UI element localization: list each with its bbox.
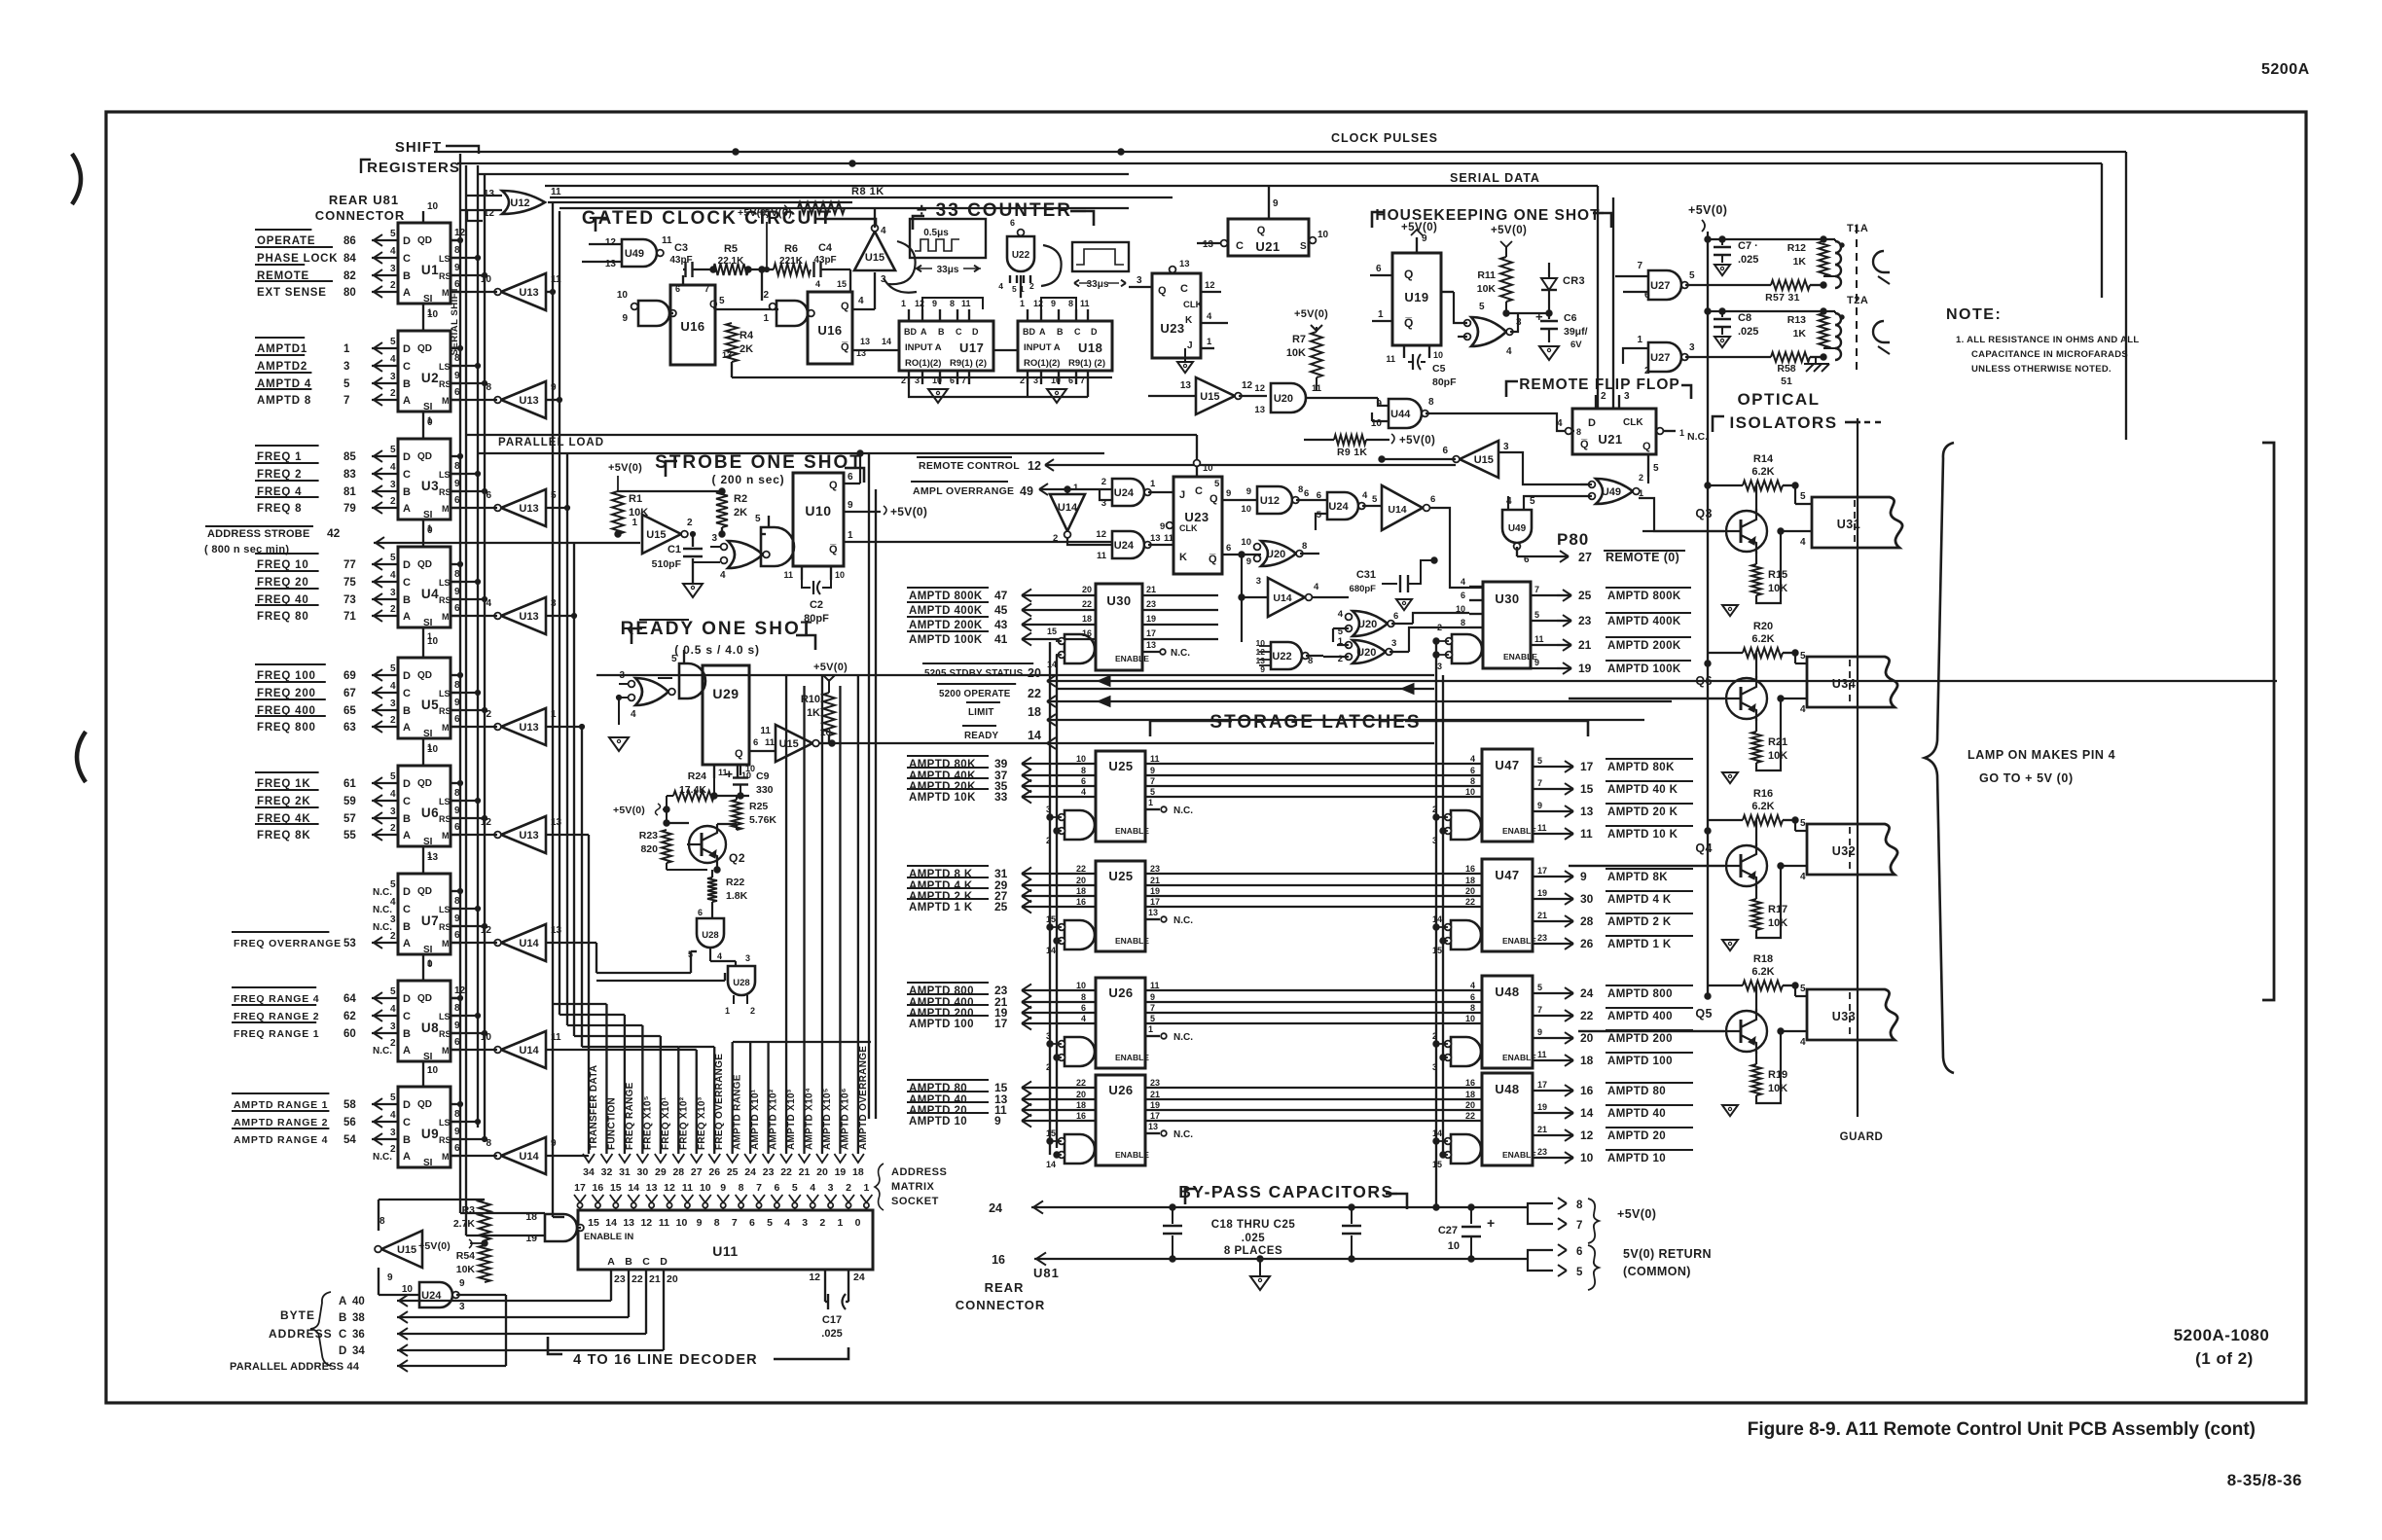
drawing number 5200A-1080: [2174, 1326, 2270, 1344]
svg-text:22: 22: [1082, 599, 1092, 609]
svg-text:U48: U48: [1495, 985, 1519, 999]
svg-text:84: 84: [343, 253, 356, 265]
svg-text:17: 17: [1150, 1111, 1160, 1121]
svg-text:U15: U15: [779, 738, 799, 750]
enable gate left group 4: [1046, 1128, 1096, 1169]
svg-text:1. ALL RESISTANCE IN OHMS AND: 1. ALL RESISTANCE IN OHMS AND ALL: [1956, 335, 2139, 345]
svg-text:ENABLE: ENABLE: [1115, 1053, 1149, 1062]
svg-text:AMPTD 10 K: AMPTD 10 K: [1607, 829, 1678, 841]
and gate (ready): [638, 650, 705, 698]
svg-text:56: 56: [343, 1117, 356, 1128]
svg-text:M: M: [442, 831, 450, 841]
latch U26 (group 4): [1096, 1075, 1149, 1165]
resistor R21: [1751, 698, 1787, 770]
svg-text:8: 8: [1428, 397, 1434, 408]
input rows of U6: [255, 771, 398, 842]
svg-text:LS: LS: [439, 362, 451, 372]
svg-text:86: 86: [343, 235, 356, 247]
svg-text:Q̅: Q̅: [829, 544, 838, 555]
capacitor C1: [652, 531, 730, 578]
svg-text:9: 9: [848, 500, 853, 511]
svg-text:43pF: 43pF: [669, 255, 692, 266]
svg-text:D: D: [403, 670, 411, 682]
svg-text:73: 73: [343, 594, 356, 606]
svg-text:21: 21: [1146, 585, 1156, 594]
svg-text:U20: U20: [1356, 647, 1376, 659]
wire serial chain into U5: [423, 627, 432, 646]
svg-text:4: 4: [390, 681, 396, 692]
housekeeping one shot U19: [1370, 233, 1443, 364]
svg-text:22.1K: 22.1K: [718, 256, 744, 267]
svg-text:U47: U47: [1495, 868, 1519, 882]
svg-text:BYTE: BYTE: [280, 1308, 315, 1322]
svg-text:9: 9: [1537, 801, 1542, 810]
note body line 2: [1971, 349, 2128, 360]
svg-text:9: 9: [622, 313, 628, 324]
svg-text:C: C: [403, 577, 411, 589]
svg-text:REMOTE CONTROL: REMOTE CONTROL: [919, 460, 1020, 472]
svg-text:Q: Q: [735, 748, 743, 760]
svg-text:.025: .025: [821, 1328, 842, 1340]
wire latch top rails: [596, 675, 1434, 686]
svg-text:CR3: CR3: [1563, 275, 1585, 287]
label PARALLEL LOAD: [498, 437, 604, 448]
svg-text:REAR U81: REAR U81: [329, 193, 399, 207]
svg-text:B: B: [403, 486, 411, 498]
svg-text:6: 6: [1081, 1003, 1086, 1013]
svg-text:B: B: [625, 1256, 632, 1268]
wire latch bus group 2: [1145, 864, 1482, 907]
svg-text:M: M: [442, 288, 450, 298]
svg-text:AMPTD 800K: AMPTD 800K: [909, 591, 983, 602]
svg-text:U14: U14: [1273, 592, 1291, 604]
svg-text:67: 67: [343, 688, 356, 699]
svg-text:8 PLACES: 8 PLACES: [1224, 1245, 1282, 1257]
enable gate left group 1: [1046, 805, 1096, 845]
svg-text:N.C.: N.C.: [1173, 915, 1193, 926]
svg-text:20: 20: [1465, 1100, 1475, 1110]
svg-text:SI: SI: [423, 1052, 433, 1062]
ground below C8: [1714, 337, 1730, 347]
svg-text:CLOCK PULSES: CLOCK PULSES: [1331, 131, 1438, 145]
svg-text:PARALLEL ADDRESS 44: PARALLEL ADDRESS 44: [230, 1361, 360, 1373]
svg-text:17: 17: [1537, 866, 1547, 876]
input rows of U9: [232, 1092, 398, 1163]
svg-text:12: 12: [1254, 383, 1265, 394]
wire counter top interconnect: [922, 275, 1076, 309]
ground Q5 emitter: [1720, 1099, 1756, 1116]
svg-text:18: 18: [852, 1166, 864, 1178]
svg-text:1: 1: [1378, 309, 1384, 320]
svg-text:+5V(0): +5V(0): [1688, 203, 1727, 217]
svg-text:21: 21: [1537, 1125, 1547, 1134]
svg-text:13: 13: [623, 1217, 634, 1229]
label +5V(0) strobe: [608, 462, 642, 537]
svg-text:R20: R20: [1753, 621, 1773, 632]
svg-text:12: 12: [809, 1271, 820, 1283]
decoder U11: [578, 1210, 873, 1270]
svg-text:16: 16: [593, 1182, 604, 1194]
svg-text:9: 9: [1246, 486, 1251, 497]
svg-text:18: 18: [1465, 876, 1475, 885]
svg-text:C6: C6: [1564, 312, 1577, 324]
nand gate U24 (address): [379, 1268, 465, 1312]
svg-text:3: 3: [828, 1182, 834, 1194]
svg-text:( 800 n sec min): ( 800 n sec min): [204, 544, 289, 555]
svg-text:42: 42: [327, 526, 341, 540]
svg-text:23: 23: [614, 1273, 626, 1285]
svg-text:AMPTD 1 K: AMPTD 1 K: [909, 902, 973, 913]
svg-text:R18: R18: [1753, 953, 1773, 965]
nc stub group 3: [1145, 1024, 1193, 1043]
nand gate U12 (status): [1241, 484, 1327, 545]
svg-text:U6: U6: [421, 806, 439, 820]
shift register U3: [398, 417, 460, 520]
svg-text:18: 18: [1028, 705, 1041, 719]
svg-text:40: 40: [352, 1296, 365, 1307]
svg-text:34: 34: [583, 1166, 595, 1178]
svg-text:30: 30: [637, 1166, 649, 1178]
svg-text:AMPTD 40 K: AMPTD 40 K: [1607, 784, 1678, 796]
enable gate left group 2: [1046, 914, 1096, 955]
svg-text:AMPTD 80: AMPTD 80: [1607, 1086, 1666, 1097]
svg-text:AMPTD 8 K: AMPTD 8 K: [909, 869, 973, 880]
svg-text:6: 6: [1304, 488, 1309, 499]
svg-text:7: 7: [1537, 778, 1542, 788]
svg-text:1: 1: [837, 1217, 843, 1229]
svg-text:+: +: [725, 767, 733, 781]
transistor Q4: [1569, 820, 1767, 899]
svg-text:6: 6: [1393, 611, 1398, 622]
svg-text:R12: R12: [1787, 242, 1806, 254]
svg-text:TRANSFER DATA: TRANSFER DATA: [589, 1065, 599, 1150]
svg-text:2: 2: [1338, 654, 1343, 664]
output rows group 1: [1533, 756, 1693, 841]
svg-text:1: 1: [1207, 337, 1212, 347]
svg-text:11: 11: [765, 737, 776, 748]
svg-text:U20: U20: [1274, 393, 1293, 405]
svg-text:U81: U81: [1033, 1266, 1060, 1280]
wire top bus line 5: [550, 197, 1173, 198]
svg-text:A: A: [403, 395, 411, 407]
svg-text:B: B: [403, 378, 411, 390]
svg-text:13: 13: [1179, 259, 1190, 269]
svg-text:N.C.: N.C.: [1171, 648, 1190, 659]
svg-text:C27: C27: [1438, 1225, 1458, 1236]
svg-text:19: 19: [835, 1166, 847, 1178]
svg-text:D: D: [403, 1099, 411, 1111]
wire bypass +5V line: [989, 1200, 1528, 1215]
svg-text:A: A: [403, 1151, 411, 1163]
svg-text:5: 5: [1530, 496, 1535, 507]
capacitor C18-C25 A: [1163, 1207, 1182, 1259]
svg-text:SI: SI: [423, 294, 433, 304]
svg-text:62: 62: [343, 1011, 356, 1022]
svg-text:11: 11: [1580, 827, 1593, 841]
svg-text:QD: QD: [417, 886, 432, 897]
svg-text:9: 9: [387, 1272, 393, 1283]
svg-text:A: A: [403, 287, 411, 299]
svg-text:2: 2: [1053, 533, 1058, 544]
svg-text:1: 1: [1073, 483, 1079, 493]
svg-text:K: K: [1179, 552, 1187, 563]
wire serial shift bus A: [460, 154, 545, 1213]
svg-text:2: 2: [390, 388, 396, 399]
svg-text:2: 2: [1020, 376, 1025, 385]
svg-text:ENABLE IN: ENABLE IN: [584, 1232, 633, 1242]
chassis ground T2A: [1804, 357, 1829, 372]
svg-text:AMPTD 200: AMPTD 200: [1607, 1033, 1673, 1045]
svg-text:.025: .025: [1242, 1233, 1265, 1244]
svg-text:2.7K: 2.7K: [453, 1218, 476, 1230]
svg-text:ENABLE: ENABLE: [1502, 826, 1536, 836]
svg-text:8: 8: [714, 1217, 720, 1229]
svg-text:7: 7: [704, 284, 709, 294]
svg-text:13: 13: [1148, 1122, 1158, 1131]
svg-text:7: 7: [1150, 1003, 1155, 1013]
right page bracket: [2262, 443, 2274, 1000]
svg-text:25: 25: [994, 900, 1008, 913]
svg-text:STORAGE LATCHES: STORAGE LATCHES: [1209, 712, 1421, 733]
resistor R24: [673, 765, 749, 801]
counter U18: [1018, 299, 1112, 385]
inverter U15 (remote): [1379, 441, 1592, 484]
svg-text:D: D: [403, 993, 411, 1005]
svg-text:K: K: [1185, 315, 1193, 326]
svg-text:U16: U16: [680, 319, 704, 334]
svg-text:U18: U18: [1078, 340, 1102, 355]
svg-text:6: 6: [1068, 376, 1073, 385]
svg-text:2K: 2K: [734, 507, 747, 519]
svg-text:6: 6: [698, 908, 703, 917]
svg-text:10: 10: [1465, 787, 1475, 797]
rotated address matrix labels: [589, 1046, 1150, 1150]
svg-text:U1: U1: [421, 263, 439, 277]
shift register U8: [398, 959, 466, 1062]
svg-text:5: 5: [343, 378, 350, 390]
label +5V(0) above R7: [1294, 308, 1328, 320]
wire right drop from clock line: [2125, 152, 2127, 440]
output rows group 2: [1533, 866, 1693, 950]
svg-text:18: 18: [1082, 614, 1092, 624]
svg-text:C9: C9: [756, 770, 770, 782]
svg-text:AMPTD X10¹: AMPTD X10¹: [750, 1089, 761, 1150]
svg-text:4: 4: [998, 281, 1003, 291]
resistor R11: [1477, 225, 1528, 316]
latch U48 (group 4): [1482, 1073, 1536, 1165]
svg-text:R17: R17: [1768, 904, 1787, 915]
output rows group 4: [1533, 1080, 1693, 1164]
svg-text:3: 3: [1503, 442, 1509, 452]
svg-text:U15: U15: [1200, 391, 1219, 403]
ground ready trigger: [609, 737, 629, 751]
svg-text:4: 4: [1800, 1037, 1806, 1048]
svg-text:19: 19: [1578, 662, 1592, 675]
svg-text:FREQ 200: FREQ 200: [257, 688, 316, 699]
svg-text:8-35/8-36: 8-35/8-36: [2227, 1471, 2302, 1489]
svg-text:GATED CLOCK CIRCUIT: GATED CLOCK CIRCUIT: [582, 208, 833, 229]
svg-text:AMPTD 8: AMPTD 8: [257, 395, 311, 407]
svg-text:C4: C4: [818, 242, 833, 254]
svg-text:A: A: [920, 327, 927, 337]
svg-text:D: D: [403, 343, 411, 355]
enable gate right group 3: [1432, 1031, 1482, 1072]
svg-text:U22: U22: [1272, 651, 1291, 663]
svg-text:22: 22: [1580, 1009, 1594, 1022]
resistor R3: [453, 1200, 490, 1246]
note LAMP ON: [1967, 748, 2115, 785]
svg-text:Q̅: Q̅: [1404, 316, 1413, 330]
svg-text:2: 2: [1437, 623, 1442, 632]
svg-text:U15: U15: [397, 1244, 416, 1256]
svg-text:4: 4: [1314, 582, 1319, 592]
svg-text:21: 21: [1578, 638, 1592, 652]
svg-text:R10: R10: [801, 694, 820, 705]
svg-text:7: 7: [1534, 585, 1539, 594]
svg-text:U14: U14: [519, 1045, 539, 1057]
svg-text:9: 9: [1246, 556, 1251, 567]
svg-text:71: 71: [343, 611, 356, 623]
svg-text:820: 820: [640, 843, 658, 855]
resistor R54: [456, 1245, 490, 1282]
svg-text:D: D: [1588, 417, 1596, 429]
svg-text:+5V(0): +5V(0): [418, 1240, 451, 1252]
svg-text:1: 1: [1020, 299, 1025, 308]
svg-text:RS: RS: [439, 595, 451, 605]
svg-text:680pF: 680pF: [1350, 584, 1377, 594]
svg-text:5200A-1080: 5200A-1080: [2174, 1326, 2270, 1344]
svg-text:ISOLATORS: ISOLATORS: [1729, 413, 1837, 432]
svg-text:FREQ RANGE: FREQ RANGE: [625, 1082, 635, 1150]
enable gate U30 left: [1047, 627, 1096, 669]
svg-text:FREQ 80: FREQ 80: [257, 611, 309, 623]
latch U47 (group 2): [1482, 859, 1536, 951]
wire isolator input Q4: [1569, 846, 1724, 866]
svg-text:AMPTD RANGE 1: AMPTD RANGE 1: [234, 1099, 328, 1111]
wire status row lines: [1047, 676, 2277, 738]
svg-text:8: 8: [1308, 656, 1313, 666]
svg-text:SI: SI: [423, 402, 433, 412]
wire matrix staircase: [553, 1004, 871, 1047]
svg-text:U23: U23: [1184, 510, 1209, 524]
ground bypass: [1250, 1259, 1270, 1290]
svg-text:QD: QD: [417, 993, 432, 1004]
svg-text:T2A: T2A: [1847, 295, 1868, 306]
svg-text:Q̅: Q̅: [1209, 554, 1217, 565]
svg-text:R6: R6: [784, 243, 798, 255]
svg-text:C: C: [403, 796, 411, 807]
svg-text:10: 10: [402, 1284, 414, 1295]
svg-text:5: 5: [671, 654, 677, 664]
svg-text:FREQ OVERRANGE: FREQ OVERRANGE: [234, 938, 342, 949]
label P80: [1557, 530, 1589, 549]
flip-flop U23 (counter): [1129, 197, 1228, 358]
and gate U20 (mid): [1254, 383, 1343, 415]
svg-text:+5V(0): +5V(0): [1617, 1207, 1656, 1221]
svg-text:Q2: Q2: [729, 851, 745, 865]
nand gate U24 third: [1316, 490, 1382, 530]
svg-text:SOCKET: SOCKET: [891, 1196, 939, 1207]
title READY ONE SHOT: [621, 619, 815, 657]
svg-text:LS: LS: [439, 470, 451, 480]
enable gate right group 1: [1432, 805, 1482, 845]
svg-text:RS: RS: [439, 706, 451, 716]
svg-text:Figure 8-9. A11 Remote Control: Figure 8-9. A11 Remote Control Unit PCB …: [1748, 1419, 2256, 1440]
svg-text:FREQ 100: FREQ 100: [257, 670, 316, 682]
note body line 3: [1971, 364, 2111, 375]
resistor R58: [1722, 348, 1826, 387]
svg-text:5: 5: [1800, 818, 1806, 829]
svg-text:FREQ 1K: FREQ 1K: [257, 778, 310, 790]
svg-text:4: 4: [390, 897, 396, 908]
svg-text:U13: U13: [519, 503, 538, 515]
svg-text:U34: U34: [1832, 677, 1856, 691]
svg-text:REMOTE (0): REMOTE (0): [1606, 551, 1679, 564]
wire mid horizontal rail: [465, 435, 1197, 459]
svg-text:U12: U12: [1260, 495, 1280, 507]
svg-text:A: A: [403, 722, 411, 734]
svg-text:24: 24: [744, 1166, 756, 1178]
svg-text:AMPTD 100: AMPTD 100: [1607, 1056, 1673, 1067]
svg-text:3: 3: [1437, 662, 1442, 671]
svg-text:13: 13: [484, 189, 495, 199]
svg-text:20: 20: [1082, 585, 1092, 594]
svg-text:U11: U11: [712, 1243, 738, 1259]
figure caption: [1748, 1419, 2256, 1440]
svg-text:FREQ RANGE 4: FREQ RANGE 4: [234, 993, 319, 1005]
svg-text:5: 5: [1214, 479, 1220, 489]
svg-text:16: 16: [1076, 897, 1086, 907]
svg-text:1: 1: [427, 958, 432, 968]
page number 5200A: [2261, 61, 2310, 78]
nor gate U20 (stat2): [1312, 609, 1469, 642]
svg-text:AMPTD 400K: AMPTD 400K: [909, 605, 983, 617]
svg-text:HOUSEKEEPING ONE SHOT: HOUSEKEEPING ONE SHOT: [1375, 207, 1600, 224]
svg-text:OPERATE: OPERATE: [257, 235, 315, 247]
isolator dashed line top: [1856, 226, 1858, 370]
enable gate U30 right: [1433, 623, 1482, 671]
svg-text:25: 25: [1578, 589, 1592, 602]
svg-text:1: 1: [1148, 798, 1153, 807]
svg-text:B: B: [339, 1312, 346, 1324]
svg-text:4: 4: [390, 462, 396, 473]
shift register U1: [398, 201, 466, 304]
svg-text:0.5μs: 0.5μs: [923, 228, 949, 238]
input rows of U7: [232, 879, 398, 949]
input rows of U5: [255, 663, 398, 734]
input rows group 3: [907, 981, 1096, 1030]
svg-text:4: 4: [1081, 1014, 1086, 1023]
svg-text:10: 10: [835, 570, 845, 580]
svg-text:REGISTERS: REGISTERS: [367, 160, 460, 176]
svg-text:INPUT A: INPUT A: [1024, 342, 1061, 353]
svg-text:9: 9: [1273, 198, 1279, 209]
svg-text:9: 9: [1580, 870, 1587, 883]
svg-text:RO(1)(2): RO(1)(2): [905, 358, 941, 369]
capacitor C5: [1408, 354, 1457, 388]
svg-text:C: C: [403, 1011, 411, 1022]
svg-text:10K: 10K: [456, 1264, 476, 1275]
svg-text:10: 10: [700, 1182, 711, 1194]
svg-text:C: C: [339, 1329, 346, 1341]
svg-text:AMPTD 400K: AMPTD 400K: [1607, 616, 1681, 627]
svg-text:AMPTD 4 K: AMPTD 4 K: [1607, 894, 1672, 906]
svg-text:4: 4: [1470, 981, 1475, 990]
svg-text:+5V(0): +5V(0): [813, 662, 848, 673]
buffer U14 (status): [1382, 485, 1483, 588]
svg-text:5: 5: [390, 337, 396, 347]
nand gate U24 first: [1100, 477, 1173, 509]
